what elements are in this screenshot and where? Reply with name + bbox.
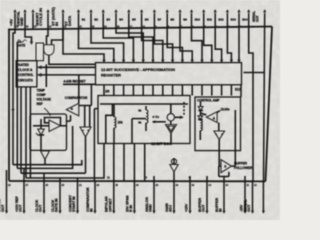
svg-text:+5V: +5V [9, 19, 14, 26]
svg-text:B2: B2 [94, 18, 98, 22]
svg-text:OUT: OUT [1, 204, 5, 212]
svg-text:COMPARATOR: COMPARATOR [65, 96, 88, 100]
svg-text:GATED: GATED [18, 63, 30, 67]
svg-text:START IN: START IN [72, 196, 76, 212]
svg-text:10.00v: 10.00v [220, 108, 229, 112]
svg-text:12-BIT SUCCESSIVE - APPROXIMAT: 12-BIT SUCCESSIVE - APPROXIMATION [101, 67, 175, 72]
svg-text:B9: B9 [183, 18, 187, 22]
svg-text:6 TO: 6 TO [153, 115, 160, 119]
svg-text:OFFSET: OFFSET [108, 198, 112, 212]
svg-text:B14: B14 [242, 18, 248, 22]
svg-text:B10: B10 [195, 18, 201, 22]
svg-text:5k: 5k [138, 121, 142, 125]
svg-text:B13: B13 [231, 18, 237, 22]
svg-text:OUT: OUT [39, 204, 43, 212]
svg-text:CIRCUITS: CIRCUITS [18, 78, 34, 82]
svg-text:12-BIT DAC: 12-BIT DAC [151, 141, 172, 146]
svg-text:2R: 2R [105, 89, 110, 93]
svg-text:3k: 3k [138, 109, 142, 113]
svg-text:OUT: OUT [247, 204, 251, 212]
svg-text:FOLLOWER: FOLLOWER [234, 166, 253, 170]
svg-text:B8: B8 [170, 18, 174, 22]
svg-text:10k: 10k [118, 121, 123, 125]
svg-text:B1: B1 [82, 18, 86, 22]
svg-text:B3: B3 [106, 18, 110, 22]
svg-text:GND: GND [149, 204, 153, 212]
svg-text:REGISTER: REGISTER [101, 73, 121, 78]
svg-text:CLOCK &: CLOCK & [18, 68, 33, 72]
svg-text:RATE IN: RATE IN [55, 198, 59, 212]
svg-text:B6: B6 [145, 18, 149, 22]
svg-text:OUT: OUT [256, 15, 260, 22]
svg-text:GATE: GATE [17, 44, 25, 48]
svg-text:B7: B7 [158, 18, 162, 22]
svg-text:OUT: OUT [202, 204, 206, 212]
svg-text:TEMP: TEMP [37, 89, 46, 93]
svg-text:ADJ: ADJ [169, 205, 173, 212]
svg-text:A-E/B REGISET: A-E/B REGISET [63, 80, 85, 84]
svg-text:CYCLE IN: CYCLE IN [38, 8, 43, 26]
svg-text:B4: B4 [119, 18, 123, 22]
svg-text:+15V: +15V [185, 203, 189, 212]
svg-text:BUFFER: BUFFER [234, 161, 247, 165]
svg-text:CONTROL: CONTROL [18, 73, 34, 77]
svg-text:B12: B12 [218, 18, 224, 22]
svg-text:VOLTAGE: VOLTAGE [37, 98, 51, 102]
svg-text:B11: B11 [207, 18, 212, 22]
svg-text:B5: B5 [132, 18, 136, 22]
svg-text:DATA: DATA [67, 16, 72, 26]
svg-text:IN: IN [219, 208, 223, 212]
svg-text:COMP: COMP [37, 93, 47, 97]
svg-text:R IN: R IN [129, 205, 133, 212]
svg-text:COMPARATOR: COMPARATOR [86, 187, 90, 212]
svg-text:IN: IN [54, 22, 59, 26]
svg-text:GND: GND [19, 17, 24, 26]
svg-text:IN: IN [90, 208, 94, 212]
svg-text:REF: REF [37, 102, 43, 106]
svg-text:E12: E12 [235, 88, 241, 92]
svg-text:OUT: OUT [19, 204, 23, 212]
